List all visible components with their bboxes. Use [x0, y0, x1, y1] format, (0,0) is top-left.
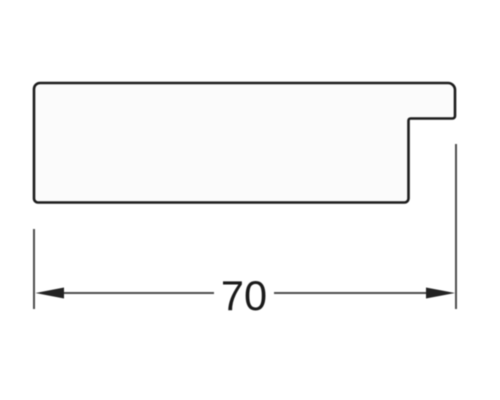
dimension line left segment	[50, 292, 214, 294]
right extension line	[455, 144, 457, 309]
left arrow	[36, 288, 65, 299]
dimension line right segment	[274, 292, 445, 294]
svg-text:70: 70	[221, 272, 267, 319]
right arrow	[426, 288, 455, 299]
profile outline (frame moulding cross-section)	[34, 83, 455, 203]
left extension line	[33, 229, 35, 309]
